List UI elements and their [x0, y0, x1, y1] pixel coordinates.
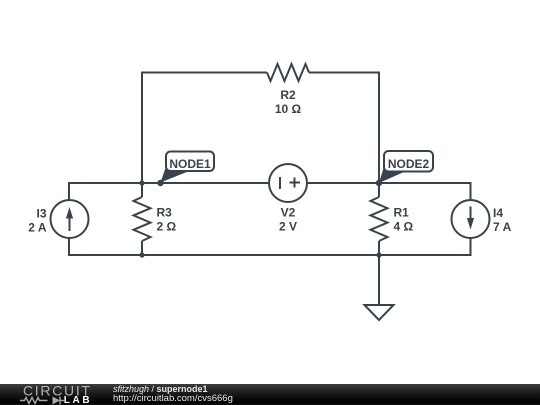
svg-text:R1: R1 — [394, 206, 410, 220]
svg-text:V2: V2 — [281, 206, 296, 220]
svg-text:2 V: 2 V — [279, 220, 297, 234]
wire R1 bottom lead — [378, 241, 380, 255]
wire I4 top lead — [470, 182, 472, 200]
label R3 value — [157, 206, 177, 234]
svg-text:R2: R2 — [280, 88, 296, 102]
I3 arrow head — [66, 207, 73, 219]
resistor R3 — [134, 197, 151, 241]
resistor R1 — [371, 197, 388, 241]
svg-text:I3: I3 — [36, 207, 46, 221]
svg-text:I4: I4 — [493, 206, 503, 220]
node NODE1 callout box — [166, 152, 214, 172]
label R2 value — [275, 88, 302, 116]
svg-text:4 Ω: 4 Ω — [394, 220, 414, 234]
wire left rail lower — [68, 238, 70, 256]
svg-text:10 Ω: 10 Ω — [275, 102, 302, 116]
svg-text:2 Ω: 2 Ω — [157, 220, 177, 234]
svg-text:NODE1: NODE1 — [169, 157, 211, 171]
junction dot NODE2 anchor (379,183) — [376, 180, 382, 186]
label I3 value — [28, 207, 47, 235]
wire middle left segment — [69, 182, 269, 184]
junction dot (142,183) — [139, 180, 144, 185]
wire middle right segment — [307, 182, 471, 184]
label I4 value — [493, 206, 512, 234]
node NODE1 callout tail — [161, 167, 189, 183]
wire R3 top lead — [141, 183, 143, 197]
wire left vertical drop — [141, 72, 143, 184]
resistor R2 — [267, 64, 309, 81]
svg-text:R3: R3 — [157, 206, 173, 220]
label V2 value — [279, 206, 297, 234]
wire I4 bottom lead — [470, 238, 472, 256]
wire ground lead — [378, 255, 380, 305]
wire right vertical drop — [378, 72, 380, 184]
I4 arrow head — [467, 218, 474, 230]
wire R1 top lead — [378, 183, 380, 197]
svg-text:LAB: LAB — [64, 395, 92, 405]
label R1 value — [394, 206, 414, 234]
svg-text:NODE2: NODE2 — [388, 157, 430, 171]
logo diode — [53, 397, 61, 405]
node NODE2 callout box — [384, 151, 433, 172]
current source I4 — [452, 200, 490, 238]
attribution text — [113, 385, 233, 404]
voltage source V2 — [269, 164, 307, 202]
wire left rail upper — [68, 182, 70, 200]
node NODE2 callout tail — [379, 167, 405, 184]
wire top-left horizontal — [142, 72, 267, 74]
logo resistor zigzag — [20, 398, 48, 404]
junction dot (142,255) — [139, 252, 144, 257]
junction dot (379,255) — [376, 252, 381, 257]
wire R3 bottom lead — [141, 241, 143, 255]
svg-text:7 A: 7 A — [493, 220, 512, 234]
wire top-right horizontal — [309, 72, 379, 74]
junction dot NODE1 anchor — [157, 180, 163, 186]
ground — [365, 305, 394, 320]
current source I3 — [51, 200, 89, 238]
wire bottom horizontal — [69, 254, 471, 256]
svg-text:2 A: 2 A — [28, 221, 47, 235]
footer bar — [0, 384, 540, 405]
